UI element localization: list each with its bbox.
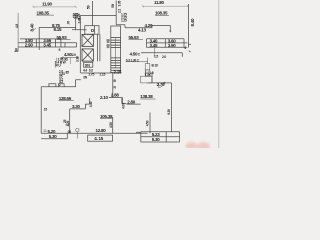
svg-text:2.15: 2.15 <box>114 69 123 74</box>
wall: core bottom y73 <box>81 72 111 74</box>
svg-text:3.30: 3.30 <box>72 104 81 109</box>
svg-text:2.88: 2.88 <box>111 93 120 98</box>
dimension table right (3.40/3.60/3.45/3.90) <box>147 39 188 48</box>
dash near left step <box>65 124 69 126</box>
walls: lower-left wing outline <box>41 80 81 134</box>
underlines for area labels <box>37 15 170 118</box>
svg-text:R U: R U <box>56 64 62 68</box>
pink watermark bottom right <box>186 142 211 151</box>
elevator box 1 (X) <box>82 34 93 46</box>
svg-text:3.35: 3.35 <box>118 1 122 7</box>
svg-text:5.30: 5.30 <box>152 137 161 142</box>
left margin dimension line x18 <box>14 13 18 52</box>
svg-text:1.25: 1.25 <box>145 74 151 78</box>
left cluster row dividers <box>55 58 70 68</box>
svg-text:4.8: 4.8 <box>15 24 19 28</box>
svg-text:4.50: 4.50 <box>109 122 113 128</box>
wall steps: center-left bay <box>85 98 89 109</box>
door swing right-mid <box>159 83 165 88</box>
svg-text:3.45: 3.45 <box>78 18 82 24</box>
wall steps: center-right bay <box>122 97 126 103</box>
left 4.50 dim line <box>61 57 80 59</box>
svg-text:85: 85 <box>66 70 70 74</box>
svg-text:108.35: 108.35 <box>37 11 50 16</box>
wall: right of shaft y24.8/y27.8 <box>116 16 171 33</box>
walls: bottom-center verticals x150/x112.7 <box>113 113 150 134</box>
box SN <box>84 62 93 67</box>
wall: upper-left wing bottom y27.4 <box>39 26 75 28</box>
texts row dim line right of stair <box>126 48 155 64</box>
svg-text:1.5: 1.5 <box>154 55 158 59</box>
svg-text:8.40: 8.40 <box>190 18 195 27</box>
svg-text:2.90: 2.90 <box>25 43 34 48</box>
svg-text:108.35: 108.35 <box>155 10 168 15</box>
svg-text:4.40: 4.40 <box>89 101 93 107</box>
svg-text:4.03: 4.03 <box>121 103 125 109</box>
door symbol bottom center <box>76 128 80 132</box>
elevator shaft side walls <box>98 34 100 61</box>
svg-text:11.90: 11.90 <box>42 2 53 7</box>
wall: lower-left wing interior x69.7/y108.9 <box>70 109 86 133</box>
wall: upper-right wing right x188.4 <box>188 4 191 52</box>
svg-text:55.93: 55.93 <box>129 35 140 40</box>
wall: core left x80.3 <box>79 16 81 73</box>
svg-text:138.38: 138.38 <box>140 94 153 99</box>
staircase box with treads <box>111 26 121 73</box>
svg-text:3.90: 3.90 <box>168 43 177 48</box>
wall: bottom y133.3 <box>41 132 147 134</box>
svg-text:4.29: 4.29 <box>145 23 154 28</box>
svg-text:2.70: 2.70 <box>157 82 166 87</box>
small room box right-mid <box>141 76 153 83</box>
svg-text:1.25: 1.25 <box>121 19 127 23</box>
svg-text:3.30: 3.30 <box>76 56 80 62</box>
ticks before 5.20 <box>44 130 47 132</box>
dimension table left (3.80/3.66/2.90/3.45) <box>18 39 76 47</box>
svg-text:59: 59 <box>86 5 90 9</box>
wall: center-bottom x112.8 <box>111 73 113 98</box>
svg-text:25: 25 <box>63 119 67 123</box>
svg-text:8.40: 8.40 <box>30 23 35 32</box>
box: right 5.23/5.30 cells <box>141 132 180 142</box>
svg-text:4.50: 4.50 <box>146 120 150 126</box>
wall: right wing bottom y132 <box>136 131 180 133</box>
svg-text:4.13: 4.13 <box>138 27 147 32</box>
svg-text:2.75: 2.75 <box>89 72 95 76</box>
svg-text:9.30: 9.30 <box>167 109 171 115</box>
svg-text:3.45: 3.45 <box>43 43 52 48</box>
svg-text:3.45: 3.45 <box>150 43 159 48</box>
svg-text:SN: SN <box>85 63 90 68</box>
svg-text:4. 15: 4. 15 <box>94 136 104 141</box>
elevator box 2 (X) <box>82 49 93 61</box>
svg-text:105.38: 105.38 <box>100 114 113 119</box>
svg-text:4.4: 4.4 <box>83 68 87 72</box>
dimension line 11.90 (left wing top) <box>33 6 77 9</box>
small duct boxes right of stair <box>145 64 150 70</box>
svg-text:2.80: 2.80 <box>127 100 136 105</box>
svg-text:138.66: 138.66 <box>59 96 72 101</box>
svg-text:05: 05 <box>68 130 72 134</box>
dimension line 11.80 (right wing top) <box>142 5 189 8</box>
svg-text:8.15: 8.15 <box>54 27 63 32</box>
wall step x75.7 / y29.8 <box>72 17 87 30</box>
svg-text:12.80: 12.80 <box>96 128 107 133</box>
stair shaft walls (top center) <box>80 1 116 26</box>
svg-text:55.93: 55.93 <box>57 35 68 40</box>
svg-text:15: 15 <box>44 108 48 112</box>
elevator lobby box D <box>85 26 99 35</box>
svg-text:2.0: 2.0 <box>162 55 166 59</box>
svg-text:59: 59 <box>111 4 115 8</box>
walls: right-mid x152/y82.9/x171.5 <box>148 72 172 132</box>
svg-text:96: 96 <box>15 48 19 52</box>
svg-text:10: 10 <box>155 64 159 68</box>
svg-text:11.80: 11.80 <box>154 0 165 5</box>
balcony box 4.15 <box>88 135 113 141</box>
right room wall y52.8 <box>141 53 182 57</box>
wall: upper-left wing left <box>38 27 40 50</box>
svg-text:0.3 1.30 2: 0.3 1.30 2 <box>126 58 139 62</box>
duct bumps on lower-left wing top wall <box>49 84 64 87</box>
svg-text:.70: .70 <box>66 21 70 25</box>
svg-text:5.30: 5.30 <box>49 134 58 139</box>
tick: 8.40 dimension end <box>33 28 36 30</box>
wall: y97.6 with step (2.80 dim) <box>109 98 141 105</box>
box: left 5.30 cell <box>41 133 67 138</box>
svg-text:2.15: 2.15 <box>100 72 106 76</box>
svg-text:2.10: 2.10 <box>100 95 109 100</box>
